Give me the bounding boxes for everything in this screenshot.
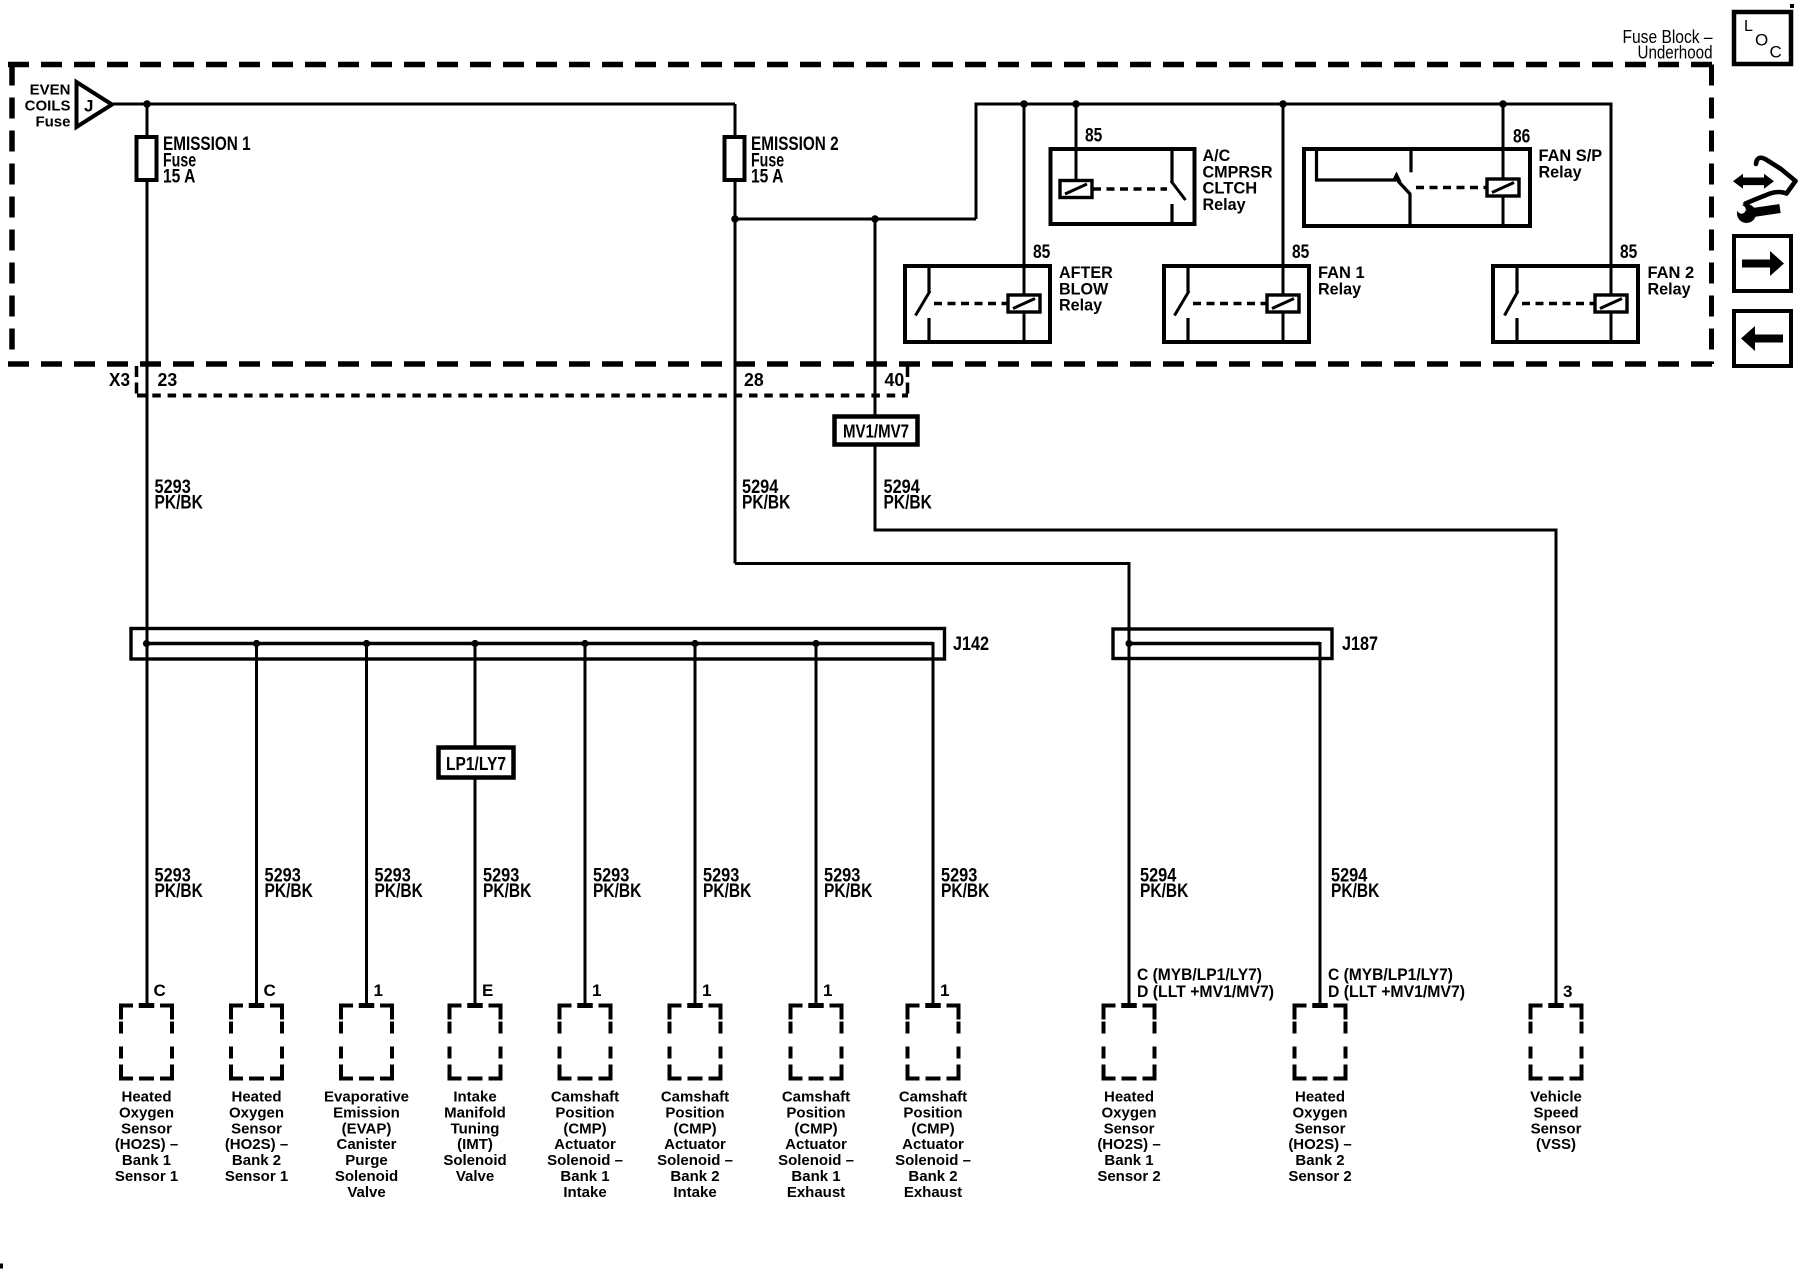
label: circuit 5293 PK/BK (375, 866, 424, 903)
svg-text:Solenoid –: Solenoid – (547, 1152, 623, 1169)
wire: relay feed bus across top (976, 103, 1613, 106)
splice J142 (131, 629, 945, 660)
label: circuit 5293 PK/BK (483, 866, 532, 903)
svg-text:(IMT): (IMT) (457, 1136, 493, 1153)
svg-text:Oxygen: Oxygen (119, 1104, 174, 1121)
svg-text:40: 40 (885, 370, 905, 390)
icon: forward arrow box (1734, 236, 1791, 291)
connector: HO2S Bank2 Sensor2 (1295, 1003, 1346, 1079)
wire: J142 end branch down (CMP B2 exhaust) (932, 644, 934, 1004)
svg-text:15 A: 15 A (751, 166, 784, 187)
label: circuit 5294 PK/BK (1140, 866, 1189, 903)
svg-text:PK/BK: PK/BK (155, 492, 204, 513)
svg-text:86: 86 (1513, 127, 1530, 148)
svg-text:(CMP): (CMP) (911, 1120, 954, 1137)
label: CMP actuator B2 exhaust (895, 1089, 971, 1201)
wire: J142 branch down (694, 644, 697, 1004)
node: J187 splice joint (1125, 640, 1132, 647)
node: J142 splice joint 5 (581, 640, 588, 647)
svg-text:Vehicle: Vehicle (1530, 1089, 1582, 1106)
svg-text:Bank 1: Bank 1 (791, 1168, 840, 1185)
connector: HO2S Bank1 Sensor1 (121, 1003, 172, 1079)
label: CMP actuator B1 exhaust (778, 1089, 854, 1201)
svg-text:X3: X3 (109, 370, 130, 390)
svg-text:(CMP): (CMP) (794, 1120, 837, 1137)
svg-text:(HO2S) –: (HO2S) – (1288, 1136, 1351, 1153)
svg-text:(HO2S) –: (HO2S) – (225, 1136, 288, 1153)
wire: relay coil feed pin 85 (1282, 104, 1285, 296)
svg-text:PK/BK: PK/BK (593, 881, 642, 902)
connector: CMP actuator B2 intake (670, 1003, 721, 1079)
svg-text:(HO2S) –: (HO2S) – (1097, 1136, 1160, 1153)
svg-text:Evaporative: Evaporative (324, 1089, 409, 1106)
wire: pin 40 branch through MV1/MV7 to VSS (875, 219, 1556, 1003)
node: junction at EMISSION 1 tap (143, 100, 151, 108)
svg-text:Camshaft: Camshaft (551, 1089, 619, 1106)
svg-text:Sensor 1: Sensor 1 (115, 1168, 178, 1185)
label: circuit 5293 PK/BK (155, 866, 204, 903)
svg-text:1: 1 (592, 981, 601, 1000)
node: J142 splice joint 1 (143, 640, 150, 647)
svg-text:Camshaft: Camshaft (782, 1089, 850, 1106)
svg-text:Canister: Canister (336, 1136, 396, 1153)
svg-text:Oxygen: Oxygen (229, 1104, 284, 1121)
relay FAN S/P (1304, 149, 1530, 226)
svg-text:Solenoid –: Solenoid – (657, 1152, 733, 1169)
svg-text:J187: J187 (1342, 634, 1378, 655)
label: AFTER BLOW Relay (1059, 263, 1113, 315)
wire: pin 28 run to splice J187 (735, 564, 1129, 1004)
label: FAN S/P Relay (1539, 146, 1603, 181)
svg-text:Relay: Relay (1318, 279, 1362, 298)
svg-text:Position: Position (903, 1104, 962, 1121)
svg-text:C: C (264, 981, 276, 1000)
svg-text:PK/BK: PK/BK (375, 881, 424, 902)
wire: drop to FAN 2 relay coil (1610, 103, 1613, 296)
svg-text:Sensor 2: Sensor 2 (1097, 1168, 1160, 1185)
svg-text:Solenoid: Solenoid (335, 1168, 398, 1185)
svg-text:Position: Position (555, 1104, 614, 1121)
svg-text:Sensor 2: Sensor 2 (1288, 1168, 1351, 1185)
svg-text:Tuning: Tuning (451, 1120, 500, 1137)
fuse source triangle J (EVEN COILS Fuse) (77, 82, 113, 127)
LOC reference box (1734, 12, 1791, 64)
svg-text:Heated: Heated (1104, 1089, 1154, 1106)
wire: EMISSION 1 fuse feed down to J142 and HO2S B1S1 (146, 104, 149, 1003)
label: circuit 5294 PK/BK (pin 28 wire) (742, 477, 791, 513)
svg-text:Relay: Relay (1539, 162, 1583, 181)
icon: wrench diagnostic pointer (1732, 158, 1796, 223)
label: CMP actuator B2 intake (657, 1089, 733, 1201)
svg-text:Intake: Intake (563, 1184, 606, 1201)
svg-text:PK/BK: PK/BK (1140, 881, 1189, 902)
svg-text:Exhaust: Exhaust (787, 1184, 845, 1201)
connector: IMT solenoid (450, 1003, 501, 1079)
svg-text:Valve: Valve (347, 1184, 385, 1201)
svg-text:Solenoid –: Solenoid – (778, 1152, 854, 1169)
label: circuit 5293 PK/BK (pin 23 wire) (155, 477, 204, 513)
node: J142 splice joint 7 (812, 640, 819, 647)
node: J142 splice joint 2 (253, 640, 260, 647)
label: Fuse Block - Underhood (1623, 27, 1713, 63)
wire: branch from EMISSION 2 to relay feed riser (735, 218, 976, 221)
connector: EVAP purge solenoid (341, 1003, 392, 1079)
svg-text:PK/BK: PK/BK (703, 881, 752, 902)
label: circuit 5293 PK/BK (593, 866, 642, 903)
label: CMP actuator B1 intake (547, 1089, 623, 1201)
connector X3 pass-through band (137, 366, 909, 396)
svg-text:D (LLT +MV1/MV7): D (LLT +MV1/MV7) (1328, 982, 1465, 1001)
connector: HO2S Bank2 Sensor1 (231, 1003, 282, 1079)
label: EMISSION 2 Fuse 15 A (751, 134, 839, 187)
wire: fuse J output to EMISSION 2 fuse (111, 103, 735, 106)
wire: J142 branch down (365, 644, 368, 1004)
svg-text:Intake: Intake (673, 1184, 716, 1201)
svg-text:Speed: Speed (1533, 1104, 1578, 1121)
svg-text:D (LLT +MV1/MV7): D (LLT +MV1/MV7) (1137, 982, 1274, 1001)
svg-text:Position: Position (665, 1104, 724, 1121)
svg-text:MV1/MV7: MV1/MV7 (843, 422, 909, 442)
svg-text:PK/BK: PK/BK (941, 881, 990, 902)
wire: J142 branch down (584, 644, 587, 1004)
svg-text:Sensor: Sensor (121, 1120, 172, 1137)
svg-text:J: J (84, 97, 93, 116)
label: circuit 5293 PK/BK (703, 866, 752, 903)
svg-text:(CMP): (CMP) (673, 1120, 716, 1137)
relay FAN 1 Relay (1164, 266, 1309, 342)
svg-text:Position: Position (786, 1104, 845, 1121)
svg-text:23: 23 (158, 370, 178, 390)
label: EVAP purge solenoid (324, 1089, 409, 1201)
svg-text:Camshaft: Camshaft (661, 1089, 729, 1106)
svg-text:(CMP): (CMP) (563, 1120, 606, 1137)
svg-text:Relay: Relay (1648, 279, 1692, 298)
svg-text:Bank 1: Bank 1 (560, 1168, 609, 1185)
connector: CMP actuator B1 intake (560, 1003, 611, 1079)
svg-text:Oxygen: Oxygen (1292, 1104, 1347, 1121)
wire: J187 end branch down (HO2S B2S2) (1319, 644, 1321, 1004)
relay A/C CMPRSR CLTCH (1051, 149, 1195, 224)
svg-text:Underhood: Underhood (1638, 43, 1713, 63)
svg-text:Relay: Relay (1203, 195, 1247, 214)
svg-text:1: 1 (823, 981, 832, 1000)
svg-text:(VSS): (VSS) (1536, 1136, 1576, 1153)
svg-text:Sensor: Sensor (1531, 1120, 1582, 1137)
connector: CMP actuator B1 exhaust (791, 1003, 842, 1079)
fuse EMISSION 2 15A (725, 137, 745, 180)
svg-text:C: C (154, 981, 166, 1000)
wire: J142 branch down (255, 644, 258, 1004)
wire: J142 branch down (815, 644, 818, 1004)
svg-text:3: 3 (1563, 982, 1572, 1001)
svg-text:Heated: Heated (231, 1089, 281, 1106)
node: J142 splice joint 4 (471, 640, 478, 647)
svg-text:Relay: Relay (1059, 296, 1103, 315)
page corner mark (0, 1264, 3, 1269)
svg-text:Valve: Valve (456, 1168, 494, 1185)
svg-text:Manifold: Manifold (444, 1104, 506, 1121)
svg-text:Solenoid –: Solenoid – (895, 1152, 971, 1169)
svg-text:Emission: Emission (333, 1104, 400, 1121)
svg-text:Bank 2: Bank 2 (908, 1168, 957, 1185)
wire: A/C relay coil feed pin 85 (1075, 104, 1078, 181)
svg-text:Sensor: Sensor (1104, 1120, 1155, 1137)
svg-text:1: 1 (374, 981, 383, 1000)
connector: CMP actuator B2 exhaust (908, 1003, 959, 1079)
option box MV1/MV7 (835, 417, 918, 445)
svg-text:Purge: Purge (345, 1152, 388, 1169)
svg-text:Actuator: Actuator (902, 1136, 964, 1153)
svg-text:Actuator: Actuator (785, 1136, 847, 1153)
svg-text:PK/BK: PK/BK (1331, 881, 1380, 902)
label: circuit 5293 PK/BK (824, 866, 873, 903)
svg-text:PK/BK: PK/BK (742, 492, 791, 513)
svg-text:15 A: 15 A (163, 166, 196, 187)
label: A/C CMPRSR CLTCH Relay (1203, 146, 1273, 214)
svg-text:Solenoid: Solenoid (443, 1152, 506, 1169)
wire: J142 branch down (474, 644, 477, 1004)
label: circuit 5293 PK/BK (265, 866, 314, 903)
option box LP1/LY7 (439, 748, 514, 778)
label: IMT solenoid (443, 1089, 506, 1186)
svg-text:Fuse: Fuse (35, 114, 70, 131)
label: FAN 2 Relay (1648, 263, 1695, 298)
svg-text:(EVAP): (EVAP) (342, 1120, 392, 1137)
icon: back arrow box (1734, 311, 1791, 366)
svg-text:COILS: COILS (25, 98, 71, 115)
svg-text:Intake: Intake (453, 1089, 496, 1106)
wire: FAN S/P relay coil feed pin 86 (1502, 104, 1505, 180)
svg-text:J142: J142 (953, 634, 989, 655)
svg-text:Oxygen: Oxygen (1101, 1104, 1156, 1121)
node: J142 splice joint 3 (363, 640, 370, 647)
svg-text:Sensor 1: Sensor 1 (225, 1168, 288, 1185)
label: HO2S Bank1 Sensor1 (115, 1089, 178, 1186)
svg-text:E: E (482, 981, 493, 1000)
svg-text:PK/BK: PK/BK (265, 881, 314, 902)
svg-text:Sensor: Sensor (1295, 1120, 1346, 1137)
wire: down through EMISSION 2 fuse (734, 104, 737, 564)
fuse block underhood dashed enclosure (8, 65, 1712, 365)
pins C/D (HO2S B1S2) (1137, 965, 1274, 1001)
svg-text:O: O (1755, 31, 1768, 50)
svg-text:1: 1 (702, 981, 711, 1000)
svg-text:Heated: Heated (121, 1089, 171, 1106)
svg-text:PK/BK: PK/BK (884, 492, 933, 513)
svg-text:Camshaft: Camshaft (899, 1089, 967, 1106)
svg-text:PK/BK: PK/BK (824, 881, 873, 902)
label: HO2S Bank2 Sensor2 (1288, 1089, 1351, 1186)
svg-text:L: L (1744, 18, 1753, 35)
wire: relay coil feed pin 85 (1023, 104, 1026, 296)
connector: VSS (1531, 1003, 1582, 1079)
node: junction MV1/MV7 branch (871, 215, 879, 223)
node: J142 splice joint 6 (691, 640, 698, 647)
svg-text:C: C (1770, 43, 1782, 62)
connector: HO2S Bank1 Sensor2 (1104, 1003, 1155, 1079)
label: circuit 5293 PK/BK (941, 866, 990, 903)
svg-text:Sensor: Sensor (231, 1120, 282, 1137)
label: HO2S Bank2 Sensor1 (225, 1089, 288, 1186)
label: circuit 5294 PK/BK (1331, 866, 1380, 903)
svg-text:85: 85 (1085, 126, 1103, 147)
svg-text:Bank 1: Bank 1 (1104, 1152, 1153, 1169)
splice J187 (1113, 629, 1332, 659)
svg-text:28: 28 (744, 370, 764, 390)
svg-text:Heated: Heated (1295, 1089, 1345, 1106)
svg-text:1: 1 (940, 981, 949, 1000)
label: EVEN COILS Fuse (25, 82, 71, 131)
svg-text:LP1/LY7: LP1/LY7 (446, 754, 506, 774)
label: EMISSION 1 Fuse 15 A (163, 134, 251, 187)
label: HO2S Bank1 Sensor2 (1097, 1089, 1160, 1186)
svg-text:Actuator: Actuator (664, 1136, 726, 1153)
relay AFTER BLOW Relay (905, 266, 1050, 342)
svg-text:Bank 2: Bank 2 (1295, 1152, 1344, 1169)
svg-text:85: 85 (1292, 242, 1310, 263)
svg-text:Bank 2: Bank 2 (670, 1168, 719, 1185)
svg-text:PK/BK: PK/BK (155, 881, 204, 902)
svg-text:EVEN: EVEN (30, 82, 71, 99)
svg-text:(HO2S) –: (HO2S) – (115, 1136, 178, 1153)
pins C/D (HO2S B2S2) (1328, 965, 1465, 1001)
svg-text:85: 85 (1033, 242, 1051, 263)
svg-text:Actuator: Actuator (554, 1136, 616, 1153)
label: circuit 5294 PK/BK (pin 40 wire) (884, 477, 933, 513)
label: VSS (1530, 1089, 1582, 1154)
wire: riser up to relay bus (975, 103, 978, 220)
node: junction below EMISSION 2 fuse (731, 215, 739, 223)
svg-text:Exhaust: Exhaust (904, 1184, 962, 1201)
fuse EMISSION 1 15A (137, 137, 157, 180)
svg-text:85: 85 (1620, 242, 1638, 263)
svg-text:Bank 1: Bank 1 (122, 1152, 171, 1169)
svg-text:PK/BK: PK/BK (483, 881, 532, 902)
relay FAN 2 (1493, 266, 1638, 342)
svg-text:Bank 2: Bank 2 (232, 1152, 281, 1169)
label: FAN 1 Relay (1318, 263, 1365, 298)
